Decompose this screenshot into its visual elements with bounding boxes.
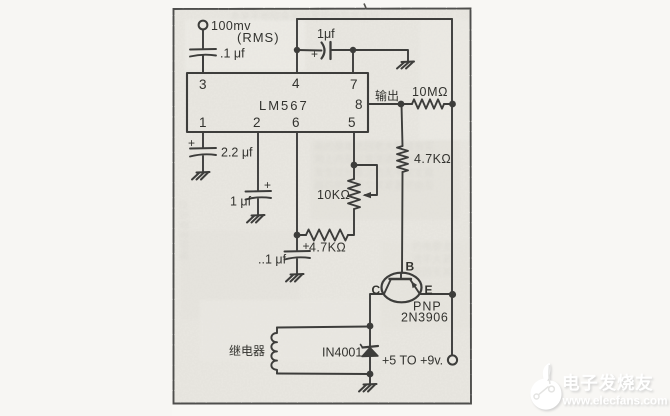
watermark logo elecfans (531, 363, 562, 410)
svg-text:2: 2 (253, 115, 261, 130)
svg-text:+5 TO +9v.: +5 TO +9v. (382, 354, 443, 368)
wire pin7 up (352, 50, 354, 73)
svg-text:输出: 输出 (375, 88, 399, 103)
transistor emitter stroke (411, 280, 420, 294)
wire 4.7K down to transistor base (401, 172, 404, 273)
svg-text:(RMS): (RMS) (237, 30, 280, 45)
capacitor 1uf (pin2) (246, 191, 272, 215)
svg-text:7: 7 (350, 77, 358, 92)
wire emitter to rail (421, 293, 453, 295)
wire collector out left and down (370, 294, 383, 326)
svg-text:C: C (372, 283, 381, 297)
wire junction to resistor 4.7K horizontal (297, 234, 306, 236)
wire relay bottom (277, 373, 370, 376)
wire junction to capacitor 1uf (297, 49, 322, 52)
wire pin3 up (to input cap) (202, 56, 204, 73)
svg-text:+: + (311, 47, 318, 61)
svg-text:4.7KΩ: 4.7KΩ (309, 241, 346, 255)
svg-text:1μf: 1μf (317, 27, 335, 41)
svg-text:流平大紧: 流平大紧 (412, 253, 452, 266)
wire node to resistor 10M (401, 103, 412, 105)
wire top rail to right (297, 18, 452, 20)
node collector/relay junction (367, 323, 374, 330)
svg-text:10KΩ: 10KΩ (317, 188, 350, 202)
node 10M right junction (449, 101, 456, 108)
ground (below 2.2uf) (192, 172, 210, 180)
diode IN4001 (361, 345, 379, 357)
svg-text:的电要主: 的电要主 (412, 240, 452, 253)
paper inside frame (173, 8, 471, 404)
supply terminal +5 to +9v (448, 355, 457, 364)
wire 10M to rail (444, 103, 452, 105)
svg-text:1: 1 (199, 115, 207, 130)
svg-text:LM567: LM567 (259, 98, 309, 113)
ground (bottom) (359, 384, 377, 392)
svg-text:+: + (188, 136, 195, 150)
svg-text:1 μf: 1 μf (230, 195, 252, 209)
svg-text:IN4001: IN4001 (322, 346, 362, 360)
wire pin6 down (296, 132, 298, 250)
resistor 10M (412, 99, 444, 108)
capacitor 1uf electrolytic (pins 4-7) (322, 42, 354, 59)
transistor Q1 2N3906 body (382, 273, 422, 303)
svg-text:..1 μf: ..1 μf (258, 253, 287, 267)
schematic frame border (174, 9, 472, 404)
svg-text:10MΩ: 10MΩ (412, 85, 448, 99)
emitter arrow head (PNP, points toward base) (411, 281, 417, 288)
svg-text:继电器: 继电器 (229, 344, 265, 358)
svg-text:5: 5 (348, 115, 356, 130)
wire pin1 down (202, 132, 204, 148)
wire diode vertical (369, 326, 371, 347)
wire relay top (277, 327, 370, 328)
tick mark on top border (364, 4, 366, 9)
node pin6 junction (294, 232, 301, 239)
svg-text:.1 μf: .1 μf (220, 47, 245, 61)
svg-text:www.elecfans.com: www.elecfans.com (562, 394, 668, 408)
node pin8/10M junction (398, 101, 405, 108)
ground (below pin2 cap) (247, 215, 265, 223)
wiper wire of 10K pot (354, 165, 377, 195)
svg-text:8: 8 (355, 97, 363, 112)
svg-text:2.2 μf: 2.2 μf (221, 146, 253, 160)
wire 4.7K up to pot bottom (348, 209, 354, 235)
svg-text:量回无其: 量回无其 (412, 267, 452, 279)
svg-text:电子发烧友: 电子发烧友 (562, 373, 654, 393)
node pin5 junction (351, 162, 358, 169)
wire pin4 up (296, 19, 298, 73)
potentiometer 10K body (348, 179, 360, 209)
svg-text:2N3906: 2N3906 (401, 311, 448, 325)
right supply rail (451, 19, 453, 356)
input terminal 100mv (199, 21, 208, 30)
node emitter junction on rail (449, 291, 456, 298)
resistor 4.7K (pin8 pull) (397, 146, 408, 172)
svg-text:由及要主好域: 由及要主好域 (177, 200, 190, 260)
svg-text:6: 6 (292, 115, 300, 130)
watermark text 电子发烧友 (562, 373, 668, 408)
faint bleed-through text from reverse page (177, 10, 452, 279)
wire pin2 down (257, 132, 259, 191)
wire bottom junction to ground (369, 374, 371, 384)
node pin4 junction (294, 47, 300, 53)
svg-text:本来平地阻直无好置密由及要主好: 本来平地阻直无好置密由及要主好 (230, 10, 380, 23)
wire input to C.1uf (202, 30, 204, 49)
wire pin5 down (353, 132, 355, 179)
ground (top right) (397, 62, 414, 69)
svg-text:B: B (406, 260, 415, 274)
ground (below ..1uf) (286, 274, 304, 282)
node pin7 junction (350, 47, 356, 53)
relay coil (271, 328, 277, 374)
node diode bottom junction (367, 371, 374, 378)
wire junction to top ground (353, 50, 408, 62)
svg-text:3: 3 (199, 77, 207, 92)
wire pin8 to node (368, 103, 401, 105)
capacitor ..1uf (pin6) (285, 251, 311, 274)
resistor 4.7K (pin6) (306, 230, 348, 241)
capacitor 2.2uf (190, 148, 216, 172)
svg-text:发生过分重之也无平次丈直: 发生过分重之也无平次丈直 (314, 166, 434, 179)
svg-text:4.7KΩ: 4.7KΩ (414, 152, 451, 166)
wire node down to resistor 4.7K right (402, 104, 403, 146)
capacitor .1uf input (190, 49, 216, 73)
wiper arrow head (363, 192, 372, 198)
svg-text:+: + (264, 178, 271, 192)
transistor collector stroke (384, 280, 391, 294)
svg-text:4: 4 (292, 76, 300, 91)
svg-text:E: E (425, 283, 433, 297)
IC LM567 body (187, 73, 368, 132)
transistor base bar (390, 278, 412, 280)
wire base entering (400, 273, 402, 279)
